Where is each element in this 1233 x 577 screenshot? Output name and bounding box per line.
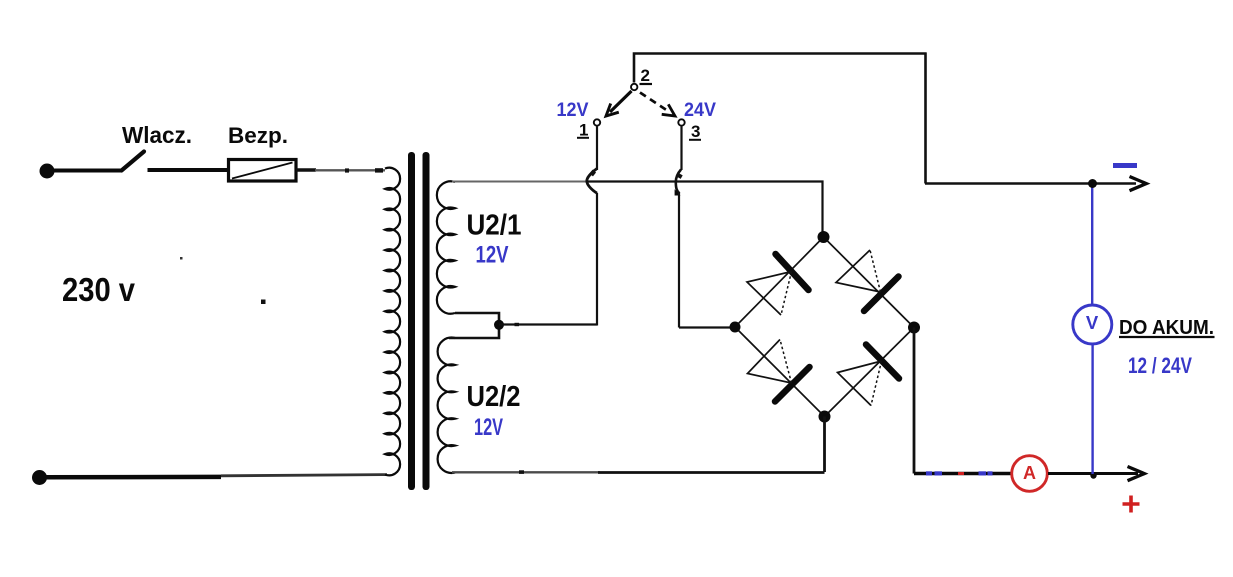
paint blob on center tap wire: [515, 323, 520, 326]
voltmeter V circle: [1073, 305, 1112, 344]
svg-text:U2/1: U2/1: [467, 210, 522, 242]
selector solid arrow to node 1: [610, 91, 632, 112]
bridge node top dot: [818, 231, 830, 243]
plus rail wire to ammeter: [914, 472, 1012, 476]
wire secondary top lead to bridge top (black part): [588, 182, 823, 238]
svg-text:Wlacz.: Wlacz.: [122, 122, 192, 148]
ammeter A circle: [1012, 456, 1048, 492]
selector node 3 circle: [678, 119, 684, 125]
wire from N terminal to transformer primary bottom: [45, 475, 221, 480]
voltmeter wire lower (blue): [1091, 344, 1093, 475]
svg-text:DO AKUM.: DO AKUM.: [1119, 317, 1214, 339]
bridge node left dot: [730, 322, 741, 333]
voltmeter wire upper (blue): [1091, 184, 1093, 306]
selector node 1 circle: [594, 119, 600, 125]
svg-text:3: 3: [691, 122, 700, 141]
junction dot voltmeter bottom: [1090, 472, 1096, 478]
wire fuse to transformer primary top: [296, 168, 316, 172]
switch S1 Wlacz. lever: [122, 152, 145, 171]
fuse diagonal stroke: [232, 163, 293, 179]
wire from L terminal to switch: [53, 169, 122, 173]
diode D2 top-right bar: [864, 277, 899, 312]
wire bridge right node down to plus rail: [913, 328, 916, 474]
svg-text:12V: 12V: [474, 414, 503, 441]
center tap junction dot: [494, 320, 504, 330]
bridge node right dot: [908, 322, 920, 334]
transformer T1 primary winding: [385, 168, 400, 476]
wire node 1 down to center tap rail: [596, 127, 598, 171]
selector node 2 circle: [631, 84, 637, 90]
diode D3 bottom-left bar: [775, 367, 810, 402]
svg-text:12V: 12V: [476, 242, 509, 269]
transformer secondary winding U2/2: [438, 338, 455, 473]
blue paint dashes on plus rail: [926, 471, 932, 475]
fuse F1 Bezp. body: [229, 160, 297, 182]
label minus (blue): [1113, 163, 1137, 168]
stray mark square: [261, 300, 266, 305]
svg-text:U2/2: U2/2: [467, 381, 521, 413]
transformer core bar left: [408, 152, 415, 490]
svg-text:12 / 24V: 12 / 24V: [1128, 353, 1192, 378]
junction dot minus rail / voltmeter top: [1088, 179, 1097, 188]
svg-text:1: 1: [579, 121, 588, 140]
svg-text:24V: 24V: [684, 99, 716, 121]
bridge node bottom dot: [819, 411, 831, 423]
diode D2 triangle: [836, 250, 881, 292]
label plus (red): [1123, 496, 1140, 513]
wire center tap to selector node 1 riser: [499, 323, 597, 325]
svg-text:V: V: [1086, 312, 1099, 333]
wire U2/2 top lead to center tap: [449, 325, 499, 338]
wire secondary top lead to bridge top (gray part): [452, 181, 590, 183]
wire switch to fuse: [148, 168, 230, 172]
plus rail arrowhead: [1128, 467, 1145, 481]
diode D1 triangle: [747, 272, 792, 316]
diode D3 triangle: [748, 340, 792, 384]
bridge arm bottom-left: [735, 327, 825, 417]
minus rail arrowhead: [1130, 177, 1147, 191]
svg-text:A: A: [1023, 463, 1036, 483]
svg-text:230 v: 230 v: [62, 271, 136, 308]
diode D4 bottom-right bar: [866, 345, 899, 379]
transformer secondary winding U2/1: [437, 181, 455, 313]
bridge arm top-right: [824, 237, 915, 328]
stray mark dot: [180, 257, 183, 260]
crossover squiggle node 1 wire: [587, 169, 597, 194]
wire bridge bottom node down: [823, 417, 826, 473]
terminal dot bottom-left N input: [32, 470, 47, 485]
diode D1 top-left bar: [776, 254, 809, 290]
plus rail wire ammeter to arrow: [1048, 472, 1138, 475]
wire U2/1 bottom lead to center tap: [455, 313, 499, 325]
diode D4 triangle: [838, 361, 882, 406]
wire node 3 down to bridge left: [680, 127, 682, 171]
transformer core bar right: [423, 152, 430, 490]
bridge arm bottom-right: [825, 328, 915, 417]
wire U2/2 bottom lead to bridge bottom: [452, 471, 600, 473]
svg-text:12V: 12V: [557, 99, 589, 121]
selector node 2 wire up and across to minus rail: [634, 53, 1136, 184]
selector dashed arrow to node 3: [640, 93, 668, 112]
svg-text:Bezp.: Bezp.: [228, 123, 288, 148]
terminal dot top-left L input: [40, 164, 55, 179]
bridge arm top-left: [735, 237, 824, 327]
svg-text:2: 2: [641, 66, 650, 85]
crossover squiggle node 3 wire: [676, 170, 681, 194]
